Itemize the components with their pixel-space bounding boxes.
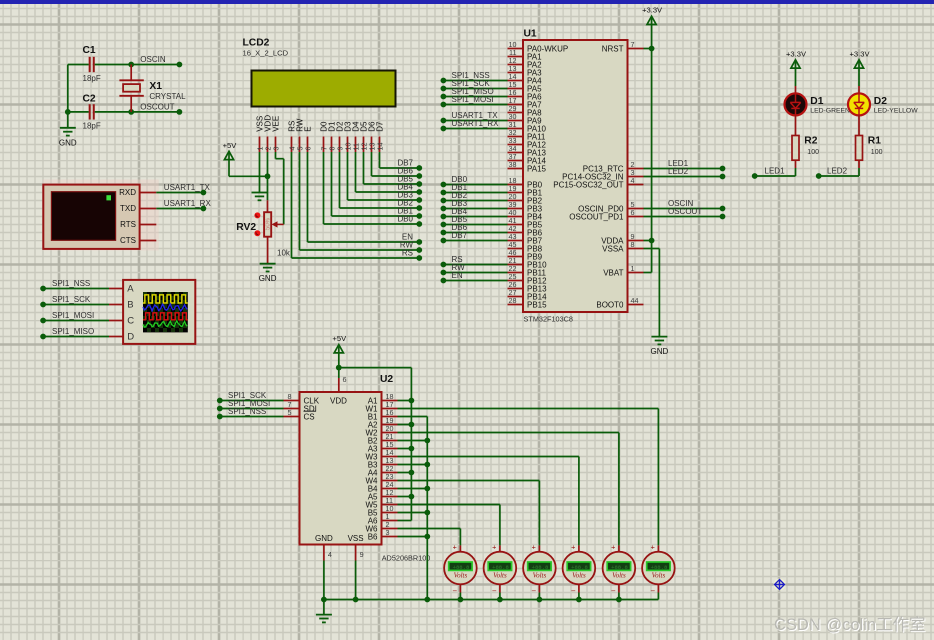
svg-text:GND: GND <box>259 274 277 283</box>
svg-text:6: 6 <box>304 147 313 151</box>
svg-text:+5V: +5V <box>223 141 238 150</box>
svg-text:3: 3 <box>386 528 390 537</box>
svg-text:44: 44 <box>631 296 639 305</box>
svg-text:DB7: DB7 <box>452 231 468 240</box>
svg-text:18pF: 18pF <box>83 122 101 131</box>
svg-text:Volts: Volts <box>572 571 586 579</box>
svg-text:NRST: NRST <box>602 44 624 53</box>
svg-text:LED2: LED2 <box>668 167 689 176</box>
svg-text:−: − <box>571 587 576 596</box>
svg-text:RS: RS <box>402 249 413 258</box>
svg-text:+: + <box>651 542 655 551</box>
svg-text:+: + <box>571 542 575 551</box>
svg-text:SPI1_MOSI: SPI1_MOSI <box>52 311 94 320</box>
svg-text:BOOT0: BOOT0 <box>596 300 624 309</box>
svg-text:+: + <box>453 542 457 551</box>
svg-text:GND: GND <box>651 347 669 356</box>
svg-text:LED1: LED1 <box>765 166 786 175</box>
svg-text:C1: C1 <box>83 45 96 56</box>
svg-text:38: 38 <box>509 160 517 169</box>
svg-text:7: 7 <box>631 40 635 49</box>
svg-text:OSCIN: OSCIN <box>140 55 166 64</box>
svg-text:14: 14 <box>376 143 385 151</box>
svg-text:1: 1 <box>631 264 635 273</box>
svg-text:C: C <box>127 316 134 327</box>
svg-text:Volts: Volts <box>454 571 468 579</box>
svg-text:DB6: DB6 <box>397 167 413 176</box>
svg-text:LCD2: LCD2 <box>243 38 270 49</box>
svg-text:USART1_TX: USART1_TX <box>164 183 211 192</box>
svg-text:DB3: DB3 <box>397 191 413 200</box>
svg-text:U1: U1 <box>524 28 537 39</box>
svg-text:X1: X1 <box>149 81 162 92</box>
svg-text:SPI1_MISO: SPI1_MISO <box>52 327 94 336</box>
svg-text:+5V: +5V <box>332 334 347 343</box>
svg-text:Volts: Volts <box>533 571 547 579</box>
svg-text:100: 100 <box>807 149 819 156</box>
svg-text:Volts: Volts <box>652 571 666 579</box>
svg-text:CTS: CTS <box>120 236 136 245</box>
svg-text:6: 6 <box>343 375 347 384</box>
svg-text:OSCOUT: OSCOUT <box>668 207 702 216</box>
svg-text:D7: D7 <box>376 121 385 132</box>
svg-text:5: 5 <box>288 408 292 417</box>
svg-text:SPI1_MOSI: SPI1_MOSI <box>452 95 494 104</box>
svg-text:DB1: DB1 <box>397 207 413 216</box>
svg-text:+3.3V: +3.3V <box>642 6 663 15</box>
svg-text:4: 4 <box>328 550 332 559</box>
svg-text:VBAT: VBAT <box>603 268 623 277</box>
svg-text:3: 3 <box>272 147 281 151</box>
svg-text:−: − <box>452 587 457 596</box>
svg-text:D1: D1 <box>810 96 823 107</box>
svg-text:+: + <box>532 542 536 551</box>
svg-text:R2: R2 <box>804 136 817 147</box>
svg-text:A: A <box>127 284 134 295</box>
svg-text:SPI1_NSS: SPI1_NSS <box>228 407 266 416</box>
svg-text:STM32F103C8: STM32F103C8 <box>524 315 573 324</box>
svg-text:−: − <box>531 587 536 596</box>
svg-text:−: − <box>611 587 616 596</box>
svg-text:EN: EN <box>452 271 463 280</box>
svg-text:R1: R1 <box>868 136 881 147</box>
svg-text:+88.8: +88.8 <box>611 564 628 571</box>
svg-text:VEE: VEE <box>272 116 281 132</box>
svg-text:RTS: RTS <box>120 220 136 229</box>
svg-text:+88.8: +88.8 <box>492 564 509 571</box>
svg-text:C2: C2 <box>83 94 96 105</box>
svg-text:+: + <box>492 542 496 551</box>
svg-text:100: 100 <box>871 149 883 156</box>
svg-text:VSSA: VSSA <box>602 244 624 253</box>
svg-text:LED2: LED2 <box>827 166 848 175</box>
svg-text:D: D <box>127 332 134 343</box>
svg-text:4: 4 <box>631 176 635 185</box>
svg-text:PC15-OSC32_OUT: PC15-OSC32_OUT <box>553 180 623 189</box>
svg-text:RXD: RXD <box>119 188 136 197</box>
svg-text:6: 6 <box>631 208 635 217</box>
svg-text:SPI1_NSS: SPI1_NSS <box>52 279 90 288</box>
svg-text:28: 28 <box>509 296 517 305</box>
svg-text:+88.8: +88.8 <box>453 564 470 571</box>
svg-text:+88.8: +88.8 <box>571 564 588 571</box>
svg-text:50%: 50% <box>266 217 272 230</box>
svg-text:+88.8: +88.8 <box>651 564 668 571</box>
svg-text:SPI1_SCK: SPI1_SCK <box>52 295 91 304</box>
svg-text:OSCOUT_PD1: OSCOUT_PD1 <box>569 212 624 221</box>
svg-text:Volts: Volts <box>493 571 507 579</box>
svg-text:8: 8 <box>631 240 635 249</box>
svg-text:Volts: Volts <box>612 571 626 579</box>
svg-text:U2: U2 <box>380 374 393 385</box>
svg-text:RV2: RV2 <box>236 222 256 233</box>
svg-text:D2: D2 <box>874 96 887 107</box>
svg-text:DB5: DB5 <box>397 175 413 184</box>
svg-text:DB0: DB0 <box>397 215 413 224</box>
svg-text:+3.3V: +3.3V <box>786 49 807 58</box>
svg-text:9: 9 <box>360 550 364 559</box>
svg-text:+88.8: +88.8 <box>532 564 549 571</box>
svg-text:USART1_RX: USART1_RX <box>452 119 500 128</box>
svg-text:LED-YELLOW: LED-YELLOW <box>874 108 918 115</box>
svg-text:LED-GREEN: LED-GREEN <box>810 108 850 115</box>
svg-text:VDD: VDD <box>330 397 347 406</box>
svg-text:PA15: PA15 <box>527 164 547 173</box>
svg-text:DB4: DB4 <box>397 183 413 192</box>
svg-text:16_X_2_LCD: 16_X_2_LCD <box>243 49 289 58</box>
svg-text:PB15: PB15 <box>527 300 547 309</box>
svg-text:CRYSTAL: CRYSTAL <box>149 92 186 101</box>
svg-text:−: − <box>492 587 497 596</box>
svg-text:B: B <box>127 300 133 311</box>
svg-text:B6: B6 <box>368 532 378 541</box>
svg-text:+3.3V: +3.3V <box>849 49 870 58</box>
svg-text:VSS: VSS <box>348 534 364 543</box>
svg-text:AD5206BR100: AD5206BR100 <box>382 554 431 563</box>
svg-text:OSCOUT: OSCOUT <box>140 103 174 112</box>
svg-text:−: − <box>650 587 655 596</box>
svg-text:CSDN @colin工作室: CSDN @colin工作室 <box>774 615 926 634</box>
svg-text:10k: 10k <box>277 249 291 258</box>
svg-text:GND: GND <box>315 534 333 543</box>
svg-text:DB2: DB2 <box>397 199 413 208</box>
svg-text:DB7: DB7 <box>397 159 413 168</box>
svg-text:+: + <box>611 542 615 551</box>
svg-text:TXD: TXD <box>120 204 136 213</box>
svg-text:18pF: 18pF <box>83 74 101 83</box>
svg-text:CS: CS <box>304 412 315 421</box>
svg-text:E: E <box>304 126 313 131</box>
svg-text:USART1_RX: USART1_RX <box>164 199 212 208</box>
svg-text:GND: GND <box>59 138 77 147</box>
